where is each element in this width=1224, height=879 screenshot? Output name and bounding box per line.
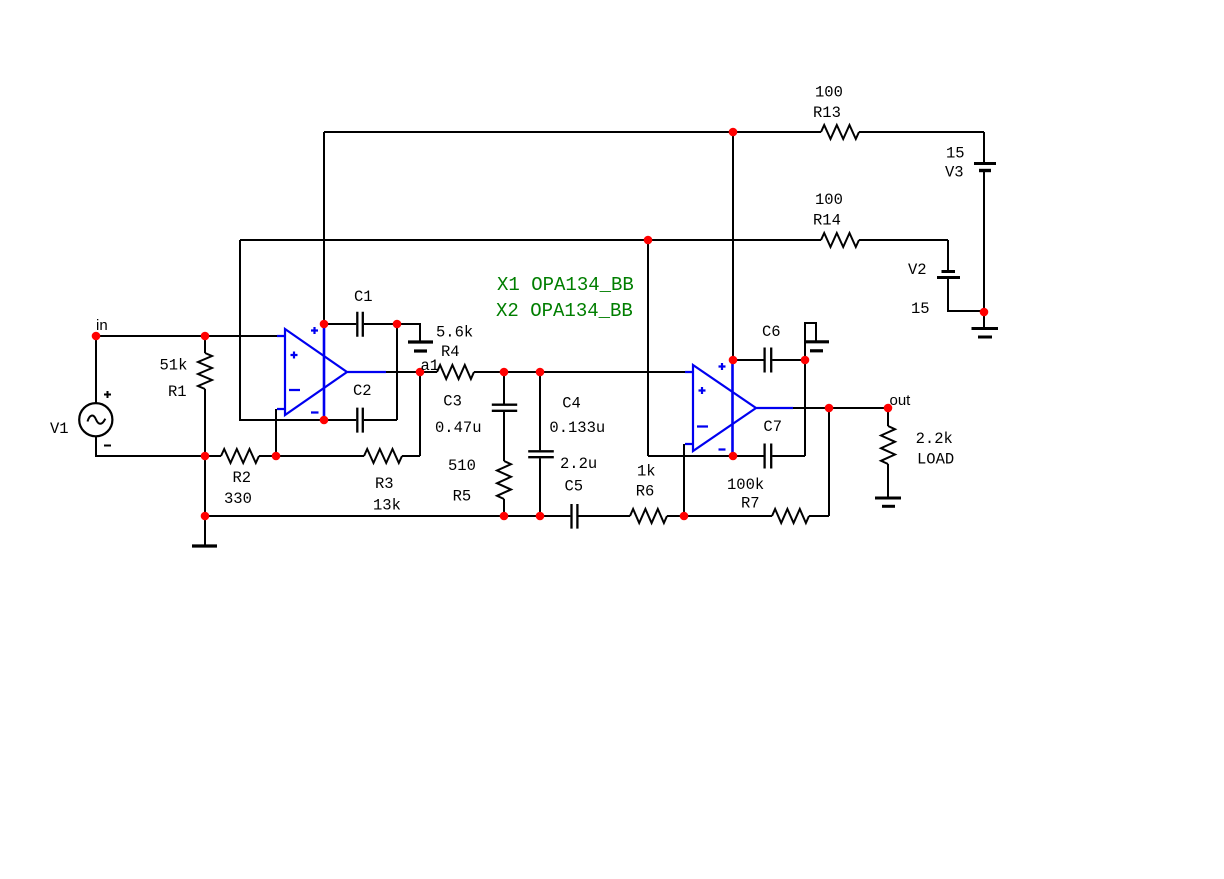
svg-text:C3: C3 [443,393,462,411]
svg-text:V3: V3 [945,164,964,182]
svg-text:R5: R5 [453,488,472,506]
svg-text:1k: 1k [637,463,656,481]
svg-text:2.2u: 2.2u [560,455,597,473]
svg-text:X1 OPA134_BB: X1 OPA134_BB [497,274,634,296]
svg-text:0.133u: 0.133u [549,419,605,437]
svg-text:15: 15 [946,145,965,163]
svg-text:in: in [96,317,108,334]
svg-text:C6: C6 [762,323,781,341]
svg-text:LOAD: LOAD [917,451,954,469]
svg-text:C5: C5 [565,477,584,495]
svg-text:C7: C7 [763,418,782,436]
svg-text:C2: C2 [353,382,372,400]
svg-text:100: 100 [815,191,843,209]
svg-text:R13: R13 [813,104,841,122]
svg-text:100: 100 [815,84,843,102]
svg-text:V2: V2 [908,261,927,279]
svg-text:R6: R6 [636,483,655,501]
svg-text:R4: R4 [441,343,460,361]
svg-text:R14: R14 [813,212,841,230]
svg-text:100k: 100k [727,476,764,494]
svg-text:R2: R2 [233,469,252,487]
svg-text:330: 330 [224,490,252,508]
svg-text:R3: R3 [375,475,394,493]
svg-text:510: 510 [448,457,476,475]
svg-text:R7: R7 [741,495,760,513]
svg-text:C4: C4 [562,395,581,413]
svg-text:C1: C1 [354,288,373,306]
svg-text:15: 15 [911,300,930,318]
svg-text:X2 OPA134_BB: X2 OPA134_BB [496,300,633,322]
svg-text:0.47u: 0.47u [435,419,482,437]
svg-text:51k: 51k [160,357,188,375]
svg-text:5.6k: 5.6k [436,324,473,342]
svg-text:13k: 13k [373,497,401,515]
svg-text:V1: V1 [50,420,69,438]
svg-text:R1: R1 [168,383,187,401]
svg-text:2.2k: 2.2k [916,430,953,448]
svg-text:out: out [890,392,912,409]
svg-text:a1: a1 [421,357,440,375]
